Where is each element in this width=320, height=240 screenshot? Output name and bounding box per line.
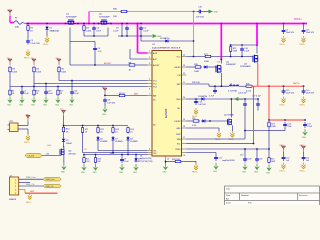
svg-text:4148WS: 4148WS xyxy=(115,141,123,143)
svg-text:14: 14 xyxy=(183,155,185,157)
svg-text:GND: GND xyxy=(7,104,12,106)
wire PACK+ drop to Q3 (magenta) xyxy=(256,24,258,46)
wire PRES (red) xyxy=(186,143,253,145)
capacitor C12 xyxy=(282,86,295,94)
capacitor C18 xyxy=(255,149,262,163)
diode D10 xyxy=(201,119,206,122)
svg-text:VC2: VC2 xyxy=(153,83,157,85)
svg-text:22: 22 xyxy=(183,73,185,75)
wire PACK+ drop to Q4 (magenta) xyxy=(220,24,222,60)
svg-text:0.1uF: 0.1uF xyxy=(143,30,149,32)
capacitor C24 (balance) xyxy=(70,81,79,96)
wire VCC net xyxy=(186,56,204,58)
svg-text:Date:: Date: xyxy=(226,201,232,204)
capacitor C27 (REG) xyxy=(252,95,262,110)
svg-text:10uF 50V: 10uF 50V xyxy=(286,32,295,34)
pin 8 TS1 xyxy=(148,149,157,153)
pin 5 VC2 xyxy=(148,83,157,85)
svg-text:2.2uF 50V: 2.2uF 50V xyxy=(30,43,40,45)
ground GND (VSS) xyxy=(163,162,169,174)
svg-text:4.7uF: 4.7uF xyxy=(209,96,215,98)
svg-text:100R: 100R xyxy=(194,71,199,73)
svg-text:PACK-: PACK- xyxy=(300,104,306,107)
svg-text:PACK-: PACK- xyxy=(192,171,198,174)
wire xyxy=(27,32,29,39)
wire cap bottoms to GND xyxy=(121,24,123,37)
pin 18 PGND xyxy=(176,126,186,130)
ground PACK- (C16) xyxy=(192,108,198,118)
svg-text:PACK-: PACK- xyxy=(228,138,234,141)
svg-text:0.1uF: 0.1uF xyxy=(244,51,250,53)
svg-text:D2 BAT54: D2 BAT54 xyxy=(160,37,170,40)
pin 15 PRES xyxy=(175,149,186,151)
svg-text:ACDET: ACDET xyxy=(153,64,160,67)
svg-text:C17: C17 xyxy=(240,155,243,157)
svg-text:BZT52C36 (TVS): BZT52C36 (TVS) xyxy=(138,161,153,163)
svg-text:SMB_Data: SMB_Data xyxy=(46,178,56,181)
svg-text:1: 1 xyxy=(149,51,150,53)
svg-text:Number: Number xyxy=(241,194,249,197)
svg-text:21: 21 xyxy=(183,82,185,84)
wire VC1 bus xyxy=(59,80,148,82)
svg-text:GND: GND xyxy=(214,12,219,14)
transistor Q5 xyxy=(224,99,235,131)
junction dots on rail xyxy=(27,23,304,25)
svg-text:10uF 50V: 10uF 50V xyxy=(306,32,315,34)
wire xyxy=(205,98,258,100)
svg-text:SMBUS: SMBUS xyxy=(9,199,17,201)
wire riser to diode OR xyxy=(140,36,142,41)
svg-text:PACK-: PACK- xyxy=(43,43,49,46)
svg-text:100K: 100K xyxy=(36,71,41,73)
svg-text:bq40z50: bq40z50 xyxy=(165,108,168,118)
pin 2 ACP xyxy=(148,57,158,61)
svg-text:0.1uF: 0.1uF xyxy=(74,93,80,95)
ground PACK- (C25) xyxy=(300,36,306,46)
port P+ (top-left input) xyxy=(7,10,12,16)
svg-text:PACK+: PACK+ xyxy=(293,82,301,85)
resistor R25 xyxy=(229,46,238,53)
capacitor C25 (top right pair) xyxy=(302,24,315,35)
svg-text:HIDRV: HIDRV xyxy=(175,67,182,69)
capacitor C5 xyxy=(139,26,149,33)
wire P+ to fuse (magenta) xyxy=(9,16,11,23)
capacitor C11 xyxy=(209,86,217,97)
svg-text:0.010: 0.010 xyxy=(246,90,252,92)
svg-text:5.1K: 5.1K xyxy=(192,125,197,127)
wire TS1 line xyxy=(97,141,99,150)
resistor R16 xyxy=(94,155,101,164)
wire sense line (tan) xyxy=(128,11,197,13)
resistor R8 xyxy=(128,62,136,71)
transistor Q4 xyxy=(216,60,236,87)
ground GND arrow (right of C19) xyxy=(203,11,209,13)
wire ACDET xyxy=(70,64,128,66)
svg-text:18: 18 xyxy=(183,126,185,128)
capacitor C16 xyxy=(194,99,206,106)
ground PACK- (J1) xyxy=(26,193,32,204)
svg-text:D3 BAT54: D3 BAT54 xyxy=(198,95,208,98)
svg-text:7: 7 xyxy=(149,94,150,96)
port BAT- (right lower 2) xyxy=(300,144,306,155)
wire drop to SMB area xyxy=(268,131,270,150)
svg-text:4148WS: 4148WS xyxy=(130,141,138,143)
svg-text:SMB_Clk: SMB_Clk xyxy=(26,184,34,186)
svg-text:PM: PM xyxy=(178,75,181,77)
ground PACK- (R24) xyxy=(192,164,198,174)
svg-text:GND: GND xyxy=(239,99,244,101)
svg-text:1uF 50V: 1uF 50V xyxy=(198,104,206,106)
svg-text:Si7336ADP: Si7336ADP xyxy=(66,15,77,18)
pin 6 VC3 xyxy=(148,86,157,90)
svg-text:VC1: VC1 xyxy=(153,80,157,82)
wire D2 to tan riser xyxy=(169,40,193,42)
ground GND (Q6) xyxy=(61,164,67,174)
port TH xyxy=(26,114,31,121)
wire VC3 bus xyxy=(10,86,148,88)
svg-text:GND: GND xyxy=(19,104,24,106)
capacitor C14 xyxy=(283,122,292,128)
svg-text:R19 10K: R19 10K xyxy=(192,82,200,84)
fuse F1 xyxy=(14,18,26,29)
resistor R4 xyxy=(33,66,42,73)
wire pin3 SMB_Clk xyxy=(19,185,43,187)
wire PACK+ sense (tan) xyxy=(89,11,120,13)
svg-text:100K: 100K xyxy=(233,51,238,53)
pin 16 SCL xyxy=(177,143,186,145)
wire BAT xyxy=(104,94,106,96)
svg-text:bq40z50 EVM: bq40z50 EVM xyxy=(223,160,235,162)
pin 3 ACDET xyxy=(148,63,161,67)
svg-text:0.1uF: 0.1uF xyxy=(113,30,119,32)
svg-text:GND: GND xyxy=(242,171,247,173)
svg-text:PACK-: PACK- xyxy=(300,170,306,173)
pin 24 VCC xyxy=(177,55,187,59)
resistor R15 xyxy=(83,155,91,164)
wire xyxy=(63,133,65,138)
wire Q3 gate net xyxy=(231,44,257,46)
wire port drops xyxy=(9,73,11,87)
svg-text:GND: GND xyxy=(119,172,124,174)
svg-text:100K: 100K xyxy=(61,71,66,73)
wire R21/C14 bottoms xyxy=(268,128,270,131)
diode D6 xyxy=(96,136,108,143)
wire Q1 gate down xyxy=(69,28,71,66)
capacitor C4 xyxy=(113,26,129,33)
svg-text:100K: 100K xyxy=(271,161,276,163)
svg-text:1uF 50V: 1uF 50V xyxy=(196,17,204,19)
wire diode-array bus xyxy=(64,125,129,127)
svg-text:C26 0.1uF: C26 0.1uF xyxy=(238,92,248,94)
wire RT1 pin2 xyxy=(18,128,28,130)
pin 1 ACN xyxy=(148,51,158,55)
transistor Q4 chain: wire HIDRV xyxy=(186,66,194,68)
svg-text:0.1uF: 0.1uF xyxy=(307,126,313,128)
wire PACK rail (red) xyxy=(252,85,305,87)
svg-text:GND: GND xyxy=(102,114,107,116)
capacitor C7 (balance) xyxy=(20,87,29,96)
ground PACK- (C12) xyxy=(280,97,286,107)
pin 19 LODRV xyxy=(174,119,186,123)
wire LODRV xyxy=(186,120,192,122)
wire to Q5 gate xyxy=(206,120,228,122)
svg-text:bq40z50 (TH): bq40z50 (TH) xyxy=(140,158,152,160)
wire GND pin elbow xyxy=(186,127,219,129)
capacitor C22 xyxy=(214,155,235,162)
port TS+ xyxy=(60,109,66,116)
svg-text:10nF: 10nF xyxy=(96,30,101,32)
svg-text:PACK-: PACK- xyxy=(280,170,286,173)
ground GND arrow (REG end) xyxy=(234,97,244,101)
pin 21 SRP xyxy=(177,82,187,86)
ground PACK- (RT1) xyxy=(24,134,30,144)
svg-text:GND: GND xyxy=(133,172,138,174)
ground GND (C15) xyxy=(302,129,308,139)
transistor Q6 xyxy=(60,146,77,156)
port 3S+ xyxy=(56,58,62,65)
svg-text:bq40z50RSMR-R1 MODULE: bq40z50RSMR-R1 MODULE xyxy=(152,47,181,49)
diode D1 TVS xyxy=(45,26,59,33)
svg-text:ACN: ACN xyxy=(153,52,158,55)
svg-text:VC3: VC3 xyxy=(153,86,157,88)
svg-text:10uF 50V: 10uF 50V xyxy=(306,92,315,94)
wire SMB common xyxy=(186,148,269,150)
resistor R22 xyxy=(192,118,200,127)
svg-text:8: 8 xyxy=(149,149,150,151)
diode D2 xyxy=(160,37,170,43)
svg-text:1uF 50V: 1uF 50V xyxy=(107,102,115,104)
resistor R18 xyxy=(194,64,202,73)
port 2S+ xyxy=(31,58,37,65)
wire Q3 source to pack rail (red) xyxy=(257,64,259,86)
svg-text:GND: GND xyxy=(61,171,66,173)
svg-text:100K: 100K xyxy=(271,126,276,128)
capacitor C26 (REG) xyxy=(238,92,248,107)
port SMB_Data flag xyxy=(43,177,61,181)
svg-text:0.1uF: 0.1uF xyxy=(124,161,130,163)
svg-text:GND: GND xyxy=(266,172,271,174)
svg-text:REG: REG xyxy=(176,99,181,101)
svg-text:CB_EN: CB_EN xyxy=(28,156,35,158)
svg-text:DISP: DISP xyxy=(176,134,181,136)
svg-text:Revision: Revision xyxy=(299,195,308,197)
wire Q6 source to GND xyxy=(63,156,65,164)
svg-text:100R: 100R xyxy=(204,61,209,63)
ground PACK- (C20) xyxy=(280,163,286,173)
diode D8 xyxy=(126,136,138,143)
svg-text:GND: GND xyxy=(55,104,60,106)
wire system rail drop (red) xyxy=(268,86,270,120)
svg-text:SMAJ26A: SMAJ26A xyxy=(50,29,60,32)
inductor L1 xyxy=(228,83,239,92)
wire VC2 bus xyxy=(34,83,148,85)
svg-text:13: 13 xyxy=(167,158,169,160)
capacitor C9 xyxy=(120,155,129,164)
resistor R24 xyxy=(172,159,182,163)
ground PACK- (below D1) xyxy=(43,31,49,46)
transistor Q3 xyxy=(240,45,258,68)
svg-text:19: 19 xyxy=(183,119,185,121)
ground PACK- (C13) xyxy=(300,97,306,107)
svg-text:PACK-: PACK- xyxy=(300,43,306,46)
wire SDA xyxy=(186,138,245,140)
resistor R11 xyxy=(81,127,88,134)
diode D5 xyxy=(62,138,73,145)
pin 4 VC1 xyxy=(148,79,157,83)
svg-text:GND: GND xyxy=(302,137,307,139)
svg-text:10R: 10R xyxy=(113,16,117,18)
op-amp U1 (battery monitor IC body) xyxy=(152,44,182,156)
wire xyxy=(63,143,65,148)
pin 20 REG xyxy=(176,97,186,101)
thermistor RT1 xyxy=(8,121,19,132)
svg-text:20: 20 xyxy=(183,97,185,99)
svg-text:CMHZ: CMHZ xyxy=(66,143,73,145)
wire C22 feed xyxy=(186,152,216,154)
svg-text:17: 17 xyxy=(183,137,185,139)
svg-text:SMB_Data: SMB_Data xyxy=(26,176,37,179)
ground GND arrow (end of filter wire) xyxy=(153,34,163,38)
svg-text:PACK-: PACK- xyxy=(280,43,286,46)
capacitor C6 (gate) xyxy=(93,46,102,53)
wire system rail (red) xyxy=(269,119,306,121)
svg-text:2N7002: 2N7002 xyxy=(69,153,77,155)
resistor R9 xyxy=(118,93,126,97)
wire rail to sense line (magenta riser) xyxy=(88,12,90,24)
svg-text:GND: GND xyxy=(31,104,36,106)
wire BAT- (red) xyxy=(25,192,58,194)
pin 9 TS2 xyxy=(148,153,157,155)
svg-text:100K: 100K xyxy=(86,30,91,32)
ground GND (sensor row) xyxy=(81,164,87,174)
svg-text:GND: GND xyxy=(69,104,74,106)
capacitor C15 xyxy=(303,122,313,128)
pin 7 BAT xyxy=(148,94,158,98)
port SMB_Clk flag xyxy=(43,184,61,188)
svg-text:3: 3 xyxy=(149,63,150,65)
svg-text:TS2: TS2 xyxy=(153,153,156,155)
wire TS2 line xyxy=(82,134,84,153)
port 1S+ xyxy=(7,58,13,65)
ground GND (balance row) xyxy=(7,97,13,107)
wire R2/C3 bottoms xyxy=(83,32,85,37)
resistor R14 xyxy=(127,127,134,134)
wire ACP xyxy=(130,58,148,60)
svg-text:PACK+: PACK+ xyxy=(294,18,302,21)
wire Q1 gate loop xyxy=(70,41,95,43)
ground PACK- (C21) xyxy=(300,163,306,173)
svg-text:PACK-: PACK- xyxy=(26,201,32,204)
svg-text:GND: GND xyxy=(98,51,103,53)
resistor R21 xyxy=(268,121,277,128)
svg-text:SiR668DP: SiR668DP xyxy=(226,64,236,66)
transistor Q2 xyxy=(99,14,110,25)
diode D9 xyxy=(134,155,152,163)
resistor R23 xyxy=(268,149,276,164)
wire pin1 SMB_DATA xyxy=(19,178,43,180)
svg-text:4148WS: 4148WS xyxy=(100,141,108,143)
wire TS3 line xyxy=(84,154,148,156)
capacitor C19 xyxy=(196,6,204,18)
port B+ xyxy=(102,87,107,94)
capacitor C21 xyxy=(302,155,310,162)
resistor R17 xyxy=(204,54,212,63)
svg-text:PACK-: PACK- xyxy=(280,104,286,107)
diode D7 xyxy=(111,136,123,143)
resistor R5 xyxy=(58,66,67,73)
svg-text:VCC: VCC xyxy=(177,56,182,58)
svg-text:PACK-: PACK- xyxy=(24,141,30,144)
pin 13 VSS (bottom pad) xyxy=(166,156,170,162)
capacitor C23 (balance) xyxy=(44,84,53,96)
svg-text:GND: GND xyxy=(213,171,218,173)
svg-text:PRES: PRES xyxy=(175,149,181,151)
svg-text:0.1uF: 0.1uF xyxy=(24,93,30,95)
capacitor C1 xyxy=(26,39,40,45)
wire SRP elbow xyxy=(186,83,209,85)
wire RT1 pin1 to port xyxy=(18,125,28,127)
svg-text:4.7uH 8A: 4.7uH 8A xyxy=(228,90,237,93)
resistor R30 (sense 10R) xyxy=(113,8,128,18)
wire SR node xyxy=(209,85,229,87)
resistor R3 xyxy=(9,66,18,73)
svg-text:100K: 100K xyxy=(110,153,115,155)
svg-text:0.1uF: 0.1uF xyxy=(247,158,253,160)
diode D4 xyxy=(203,65,208,68)
svg-text:PACK-: PACK- xyxy=(24,57,30,60)
capacitor C17 xyxy=(240,149,252,163)
resistor R13 xyxy=(112,127,119,134)
svg-text:10uF 50V: 10uF 50V xyxy=(286,92,295,94)
resistor R27 (balance) xyxy=(57,87,63,97)
svg-text:Q5 SSM3K: Q5 SSM3K xyxy=(224,115,235,117)
pin 22 PMS xyxy=(178,73,187,77)
wire REG rail down xyxy=(244,108,246,131)
svg-text:C22: C22 xyxy=(218,157,221,159)
svg-text:SMB_Clk: SMB_Clk xyxy=(46,186,54,188)
capacitor C20 xyxy=(282,155,290,162)
wire REG net xyxy=(186,98,200,100)
svg-text:C18: C18 xyxy=(259,158,262,160)
svg-text:LODRV: LODRV xyxy=(174,121,181,123)
wire tan riser to VCC xyxy=(193,12,195,57)
svg-text:GND: GND xyxy=(43,104,48,106)
wire to D2 xyxy=(141,40,164,42)
pin 10 TS3 xyxy=(148,154,153,156)
capacitor C13 xyxy=(302,86,315,94)
svg-text:24: 24 xyxy=(183,55,185,57)
svg-text:2: 2 xyxy=(149,57,150,59)
wire PACK+ rail (magenta bus) xyxy=(26,23,307,25)
svg-text:Cell-: Cell- xyxy=(47,145,52,147)
svg-text:ACDET: ACDET xyxy=(104,62,112,65)
svg-text:GND: GND xyxy=(254,171,259,173)
ground GND (SMB row) xyxy=(242,164,248,174)
ground GND (below C8) xyxy=(102,104,108,116)
capacitor C3 xyxy=(92,26,102,33)
svg-text:4: 4 xyxy=(149,79,150,81)
pin 23 HIDRV xyxy=(175,65,187,69)
resistor R12 xyxy=(97,127,104,134)
svg-text:GND: GND xyxy=(93,172,98,174)
wire TS chain xyxy=(63,116,65,126)
svg-text:23: 23 xyxy=(183,65,185,67)
svg-text:Si7336ADP: Si7336ADP xyxy=(240,65,251,68)
resistor R20 (sense) xyxy=(239,83,252,92)
svg-text:GND: GND xyxy=(81,172,86,174)
wire to Q4 gate xyxy=(208,66,217,68)
svg-text:6: 6 xyxy=(149,89,150,91)
